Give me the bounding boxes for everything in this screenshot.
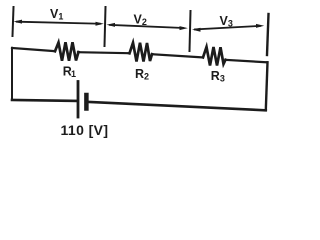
arrowhead V3 left: [192, 28, 201, 32]
wire top left segment: [12, 48, 55, 51]
tick T1 (left end of V1 dimension): [13, 7, 14, 36]
wire V2 dimension arrow line: [110, 25, 183, 28]
arrowhead V2 left: [107, 23, 116, 27]
tick T2 (between V1 and V2): [105, 7, 106, 46]
wire V1 dimension arrow line: [17, 22, 100, 24]
arrowhead V1 left: [14, 20, 23, 24]
battery negative plate (short thick): [84, 95, 89, 109]
battery positive plate (long): [77, 82, 80, 118]
wire top right segment: [226, 60, 268, 62]
resistor R2: [130, 43, 153, 62]
resistor R3: [203, 47, 226, 66]
wire bottom right segment: [88, 102, 266, 110]
resistor R1: [55, 42, 79, 61]
arrowhead V1 right: [96, 22, 104, 26]
arrowhead V2 right: [180, 26, 188, 30]
wire V3 dimension arrow line: [195, 26, 260, 30]
wire bottom left segment: [12, 99, 78, 103]
wire between R1 and R2: [78, 52, 129, 53]
wire between R2 and R3: [152, 54, 203, 57]
arrowhead V3 right: [256, 24, 264, 28]
svg-text:110 [V]: 110 [V]: [61, 122, 109, 138]
tick T3 (between V2 and V3): [190, 11, 191, 51]
wire circuit right vertical: [266, 62, 268, 110]
tick T4 (right end of V3 dimension): [267, 14, 269, 55]
wire circuit left vertical: [11, 48, 13, 100]
